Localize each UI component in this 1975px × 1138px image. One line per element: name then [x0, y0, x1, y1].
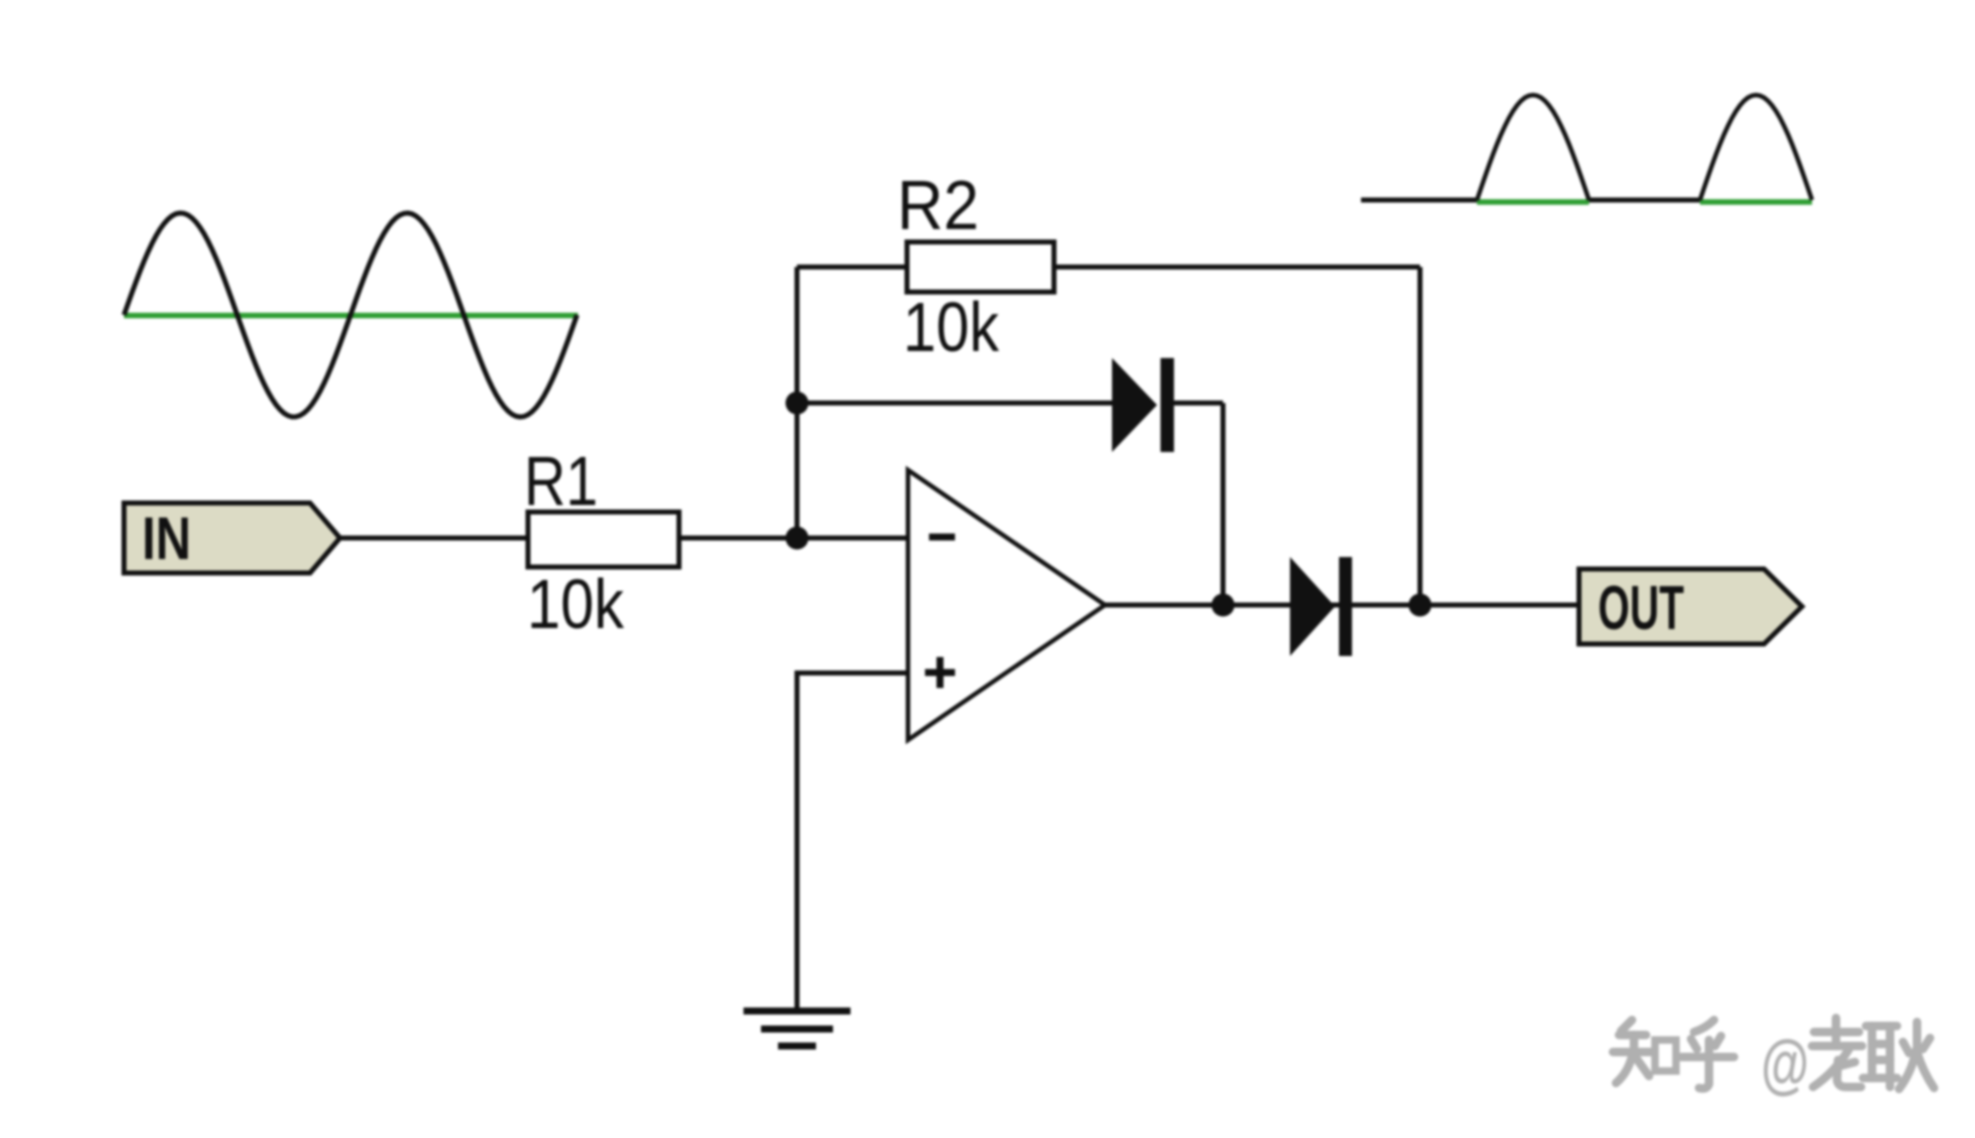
svg-text:IN: IN [142, 505, 191, 572]
svg-text:@: @ [1761, 1026, 1809, 1100]
svg-text:R1: R1 [524, 442, 598, 520]
svg-text:10k: 10k [527, 565, 625, 643]
svg-text:10k: 10k [903, 288, 1000, 366]
svg-text:OUT: OUT [1598, 574, 1684, 643]
svg-text:R2: R2 [897, 166, 979, 244]
